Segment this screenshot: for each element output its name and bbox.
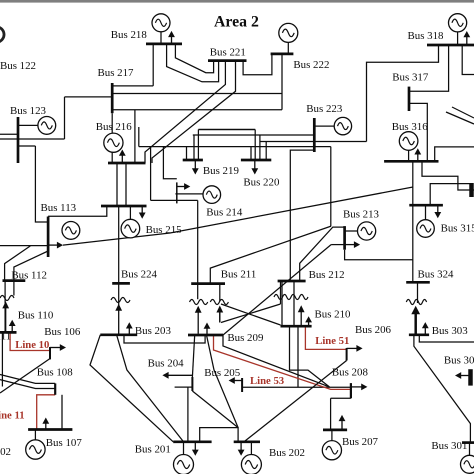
svg-text:Bus 108: Bus 108	[37, 367, 74, 379]
svg-text:Bus 102: Bus 102	[0, 446, 11, 458]
svg-text:Bus 113: Bus 113	[41, 202, 77, 214]
svg-text:Bus 212: Bus 212	[309, 269, 345, 281]
svg-text:Bus 223: Bus 223	[306, 103, 343, 115]
svg-text:Bus 210: Bus 210	[315, 308, 352, 320]
svg-text:Bus 211: Bus 211	[221, 269, 257, 281]
svg-text:Bus 324: Bus 324	[418, 269, 455, 281]
svg-text:Bus 206: Bus 206	[355, 324, 392, 336]
svg-text:Line 11: Line 11	[0, 410, 25, 422]
svg-text:Bus 219: Bus 219	[203, 165, 239, 177]
svg-text:Bus 215: Bus 215	[146, 224, 183, 236]
svg-text:Bus 318: Bus 318	[408, 30, 445, 42]
svg-text:Bus 214: Bus 214	[206, 206, 243, 218]
svg-text:Bus 217: Bus 217	[98, 67, 135, 79]
svg-text:Line 53: Line 53	[250, 375, 284, 387]
svg-text:Bus 202: Bus 202	[269, 447, 305, 459]
svg-text:Bus 110: Bus 110	[18, 309, 54, 321]
svg-text:Bus 201: Bus 201	[135, 443, 171, 455]
svg-text:Bus 315: Bus 315	[441, 223, 474, 235]
svg-text:Bus 208: Bus 208	[332, 367, 369, 379]
svg-text:Bus 218: Bus 218	[111, 29, 148, 41]
svg-text:Bus 203: Bus 203	[135, 325, 172, 337]
svg-text:Bus 220: Bus 220	[243, 176, 280, 188]
svg-text:Bus 106: Bus 106	[44, 326, 81, 338]
svg-text:Bus 317: Bus 317	[392, 72, 429, 84]
svg-text:Bus 207: Bus 207	[342, 436, 379, 448]
svg-text:Bus 111: Bus 111	[0, 331, 11, 343]
svg-text:Bus 222: Bus 222	[293, 59, 329, 71]
svg-text:Bus 303: Bus 303	[432, 325, 469, 337]
svg-text:Bus 305: Bus 305	[444, 355, 474, 367]
svg-text:Bus 107: Bus 107	[46, 437, 83, 449]
svg-text:Line 51: Line 51	[315, 335, 349, 347]
svg-text:Area 2: Area 2	[214, 14, 259, 31]
svg-text:Bus 213: Bus 213	[343, 208, 380, 220]
svg-text:Bus 204: Bus 204	[148, 357, 185, 369]
svg-text:Bus 123: Bus 123	[10, 105, 47, 117]
svg-text:Bus 316: Bus 316	[392, 121, 429, 133]
svg-text:Bus 221: Bus 221	[210, 46, 246, 58]
svg-text:Bus 224: Bus 224	[121, 269, 158, 281]
svg-text:Bus 209: Bus 209	[227, 332, 263, 344]
svg-text:Bus 301: Bus 301	[431, 440, 467, 452]
svg-text:Bus 205: Bus 205	[204, 367, 241, 379]
svg-text:Line 10: Line 10	[15, 339, 49, 351]
svg-text:Bus 216: Bus 216	[96, 121, 133, 133]
svg-text:Bus 112: Bus 112	[11, 269, 47, 281]
svg-text:Bus 122: Bus 122	[0, 60, 36, 72]
